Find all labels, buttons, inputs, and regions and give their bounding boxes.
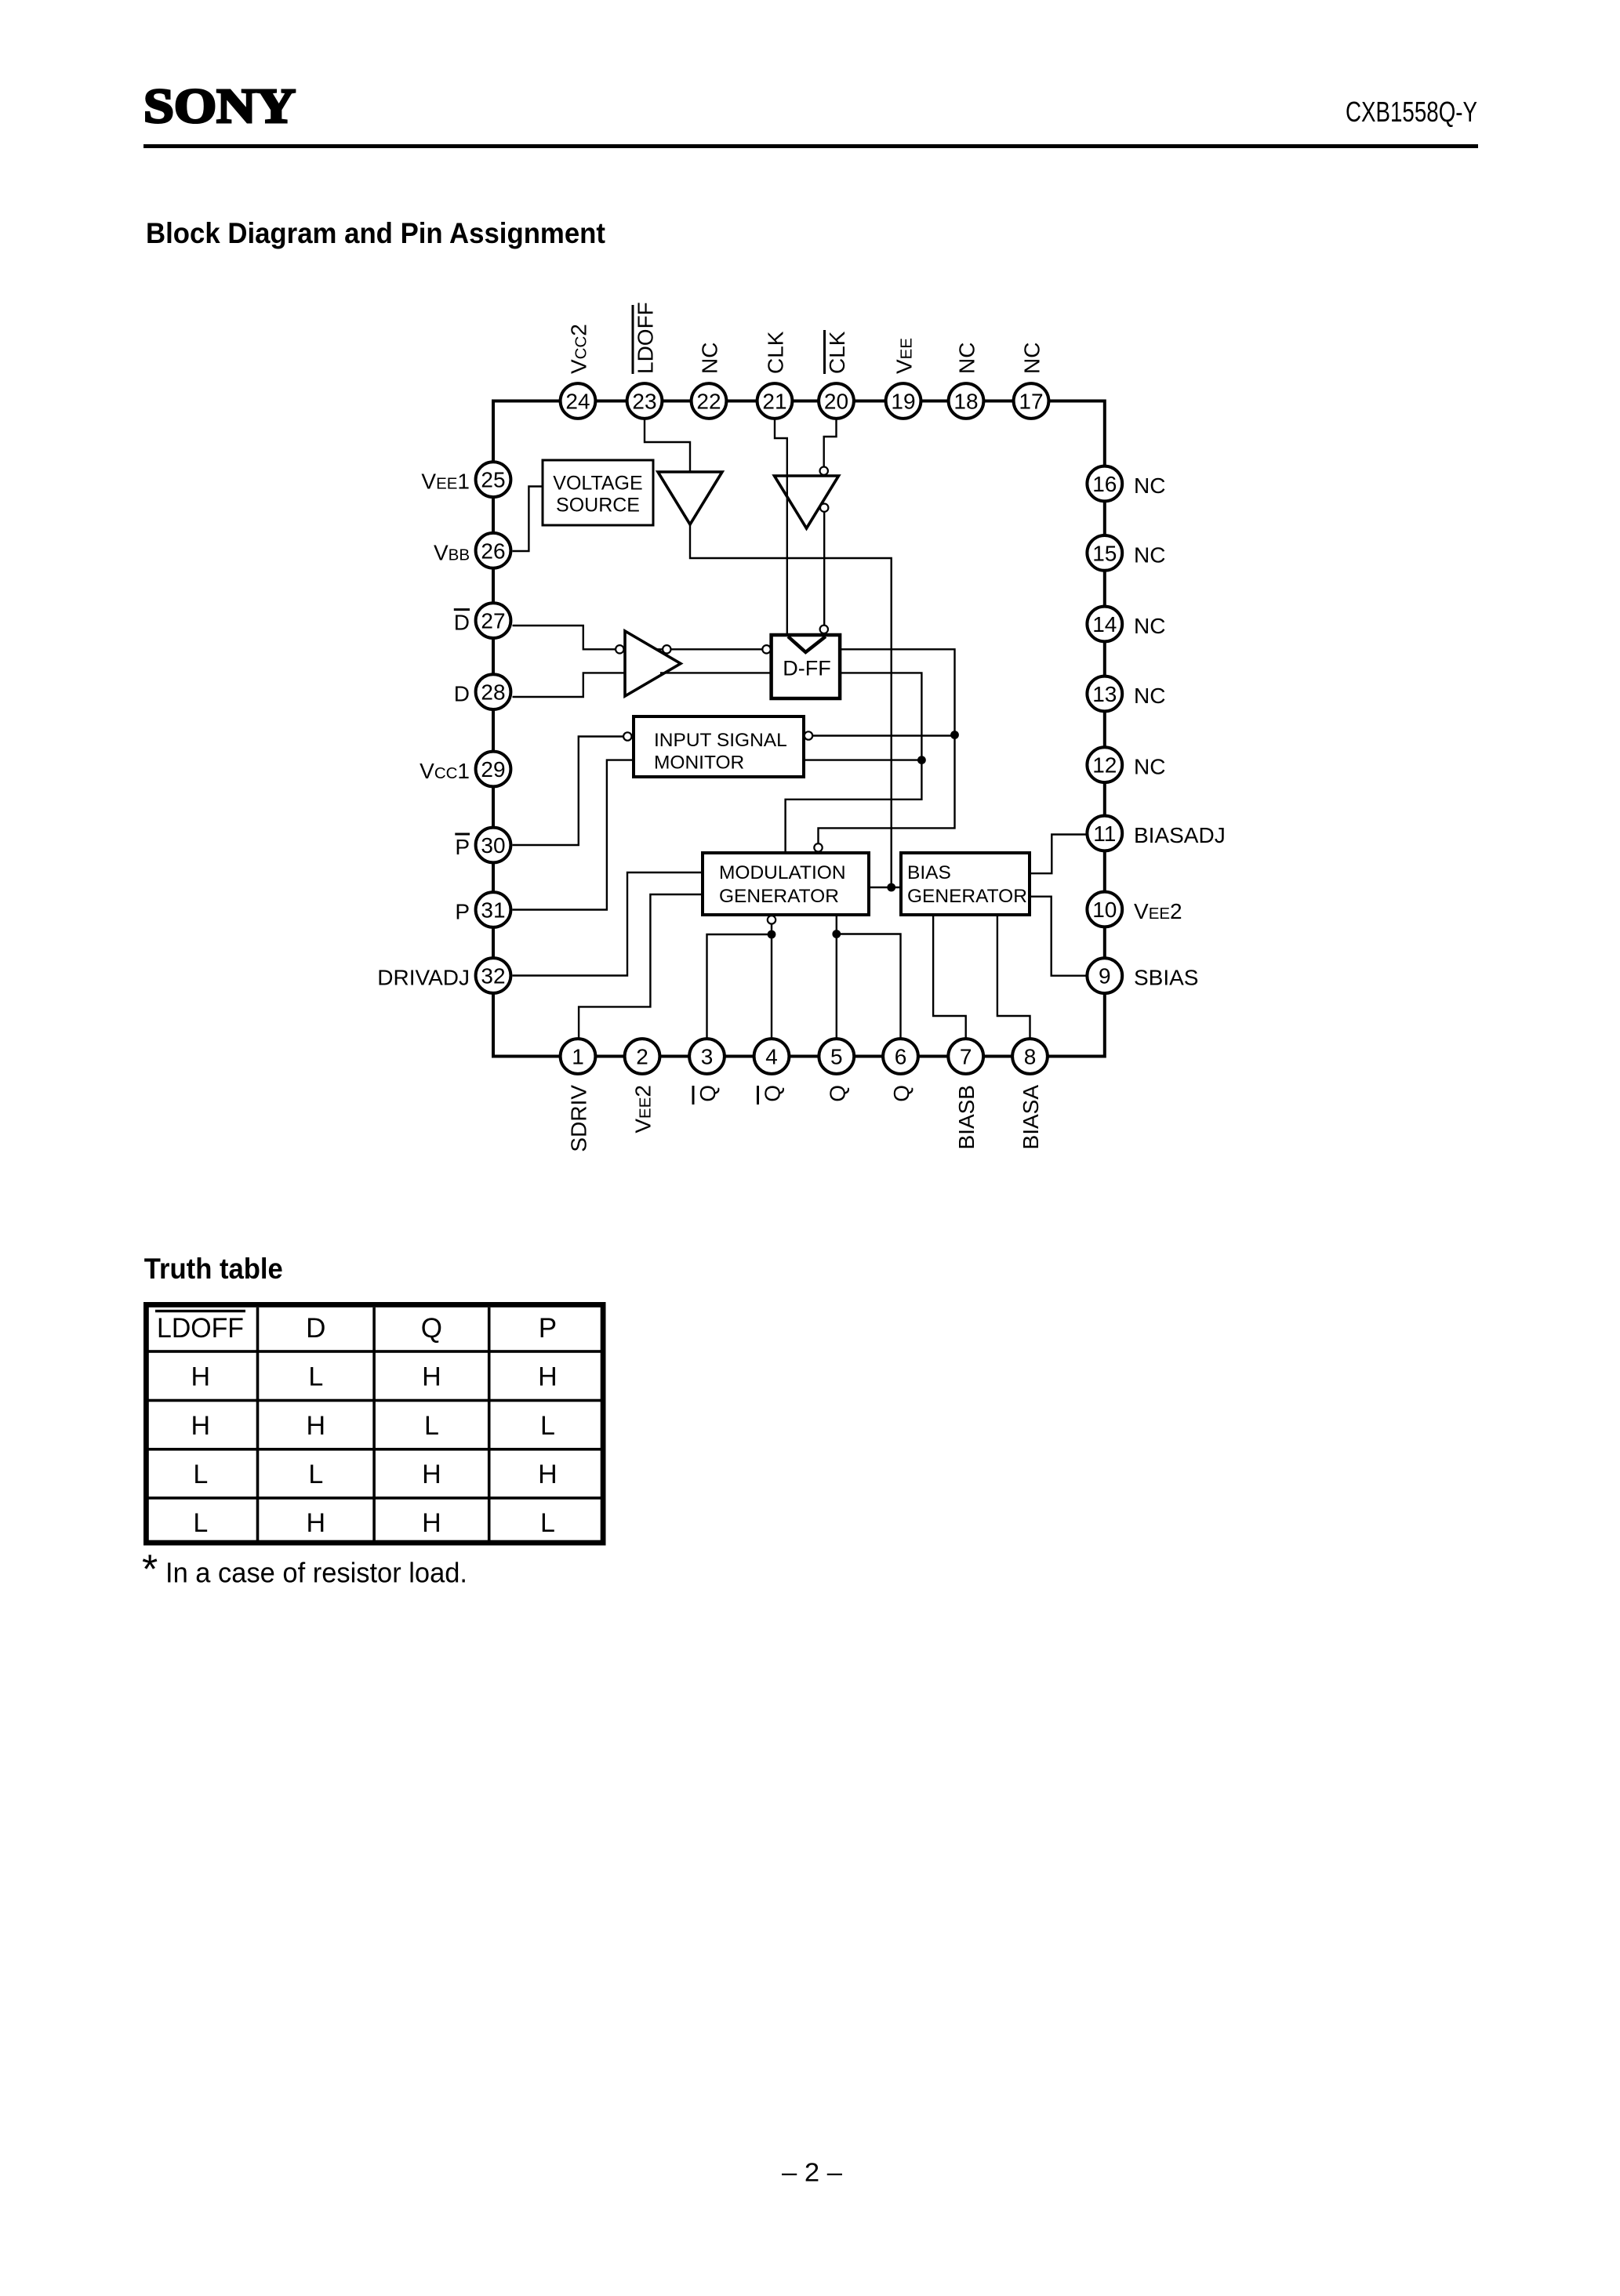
svg-text:21: 21 (762, 390, 786, 414)
svg-text:BIASA: BIASA (1019, 1085, 1043, 1150)
svg-text:24: 24 (565, 390, 590, 414)
svg-text:23: 23 (632, 390, 656, 414)
svg-text:SONY: SONY (143, 80, 296, 133)
svg-text:P: P (455, 835, 470, 859)
svg-text:32: 32 (481, 964, 505, 988)
svg-text:18: 18 (953, 390, 978, 414)
svg-text:SBIAS: SBIAS (1134, 966, 1198, 990)
svg-text:H: H (422, 1508, 441, 1538)
svg-text:22: 22 (696, 390, 721, 414)
svg-text:L: L (308, 1460, 323, 1489)
svg-text:1: 1 (572, 1045, 584, 1069)
svg-text:NC: NC (698, 343, 722, 374)
svg-text:NC: NC (1134, 542, 1165, 567)
svg-text:H: H (191, 1362, 211, 1391)
svg-text:NC: NC (1134, 755, 1165, 779)
svg-text:Q: Q (421, 1313, 442, 1344)
svg-text:D: D (454, 682, 470, 706)
svg-text:L: L (424, 1411, 439, 1441)
svg-text:In a case of resistor load.: In a case of resistor load. (165, 1557, 467, 1589)
svg-text:NC: NC (1020, 343, 1044, 374)
svg-text:17: 17 (1019, 390, 1043, 414)
svg-text:Q: Q (761, 1085, 785, 1102)
svg-text:NC: NC (1134, 684, 1165, 708)
svg-text:26: 26 (481, 539, 505, 563)
svg-text:Block Diagram and Pin Assignme: Block Diagram and Pin Assignment (146, 217, 605, 249)
svg-text:P: P (539, 1313, 557, 1344)
svg-text:INPUT SIGNAL: INPUT SIGNAL (654, 730, 787, 751)
svg-text:BIAS: BIAS (907, 862, 951, 883)
svg-text:30: 30 (481, 833, 505, 858)
svg-text:16: 16 (1092, 472, 1117, 496)
svg-text:LDOFF: LDOFF (157, 1313, 244, 1344)
svg-text:D: D (306, 1313, 325, 1344)
svg-text:*: * (142, 1547, 158, 1593)
svg-text:BIASADJ: BIASADJ (1134, 823, 1226, 847)
svg-text:L: L (193, 1508, 208, 1538)
svg-text:H: H (307, 1508, 326, 1538)
svg-text:9: 9 (1099, 964, 1111, 988)
svg-text:H: H (538, 1362, 558, 1391)
svg-text:GENERATOR: GENERATOR (719, 886, 839, 907)
svg-text:13: 13 (1092, 682, 1117, 706)
svg-text:L: L (540, 1411, 555, 1441)
svg-text:CLK: CLK (825, 331, 849, 374)
svg-text:Q: Q (889, 1085, 914, 1102)
svg-text:VOLTAGE: VOLTAGE (553, 473, 642, 495)
svg-text:CLK: CLK (764, 331, 788, 374)
svg-text:7: 7 (960, 1045, 972, 1069)
svg-text:28: 28 (481, 680, 505, 705)
svg-text:D: D (454, 611, 470, 635)
svg-text:DRIVADJ: DRIVADJ (377, 966, 470, 990)
svg-text:D-FF: D-FF (783, 656, 830, 680)
svg-text:H: H (422, 1460, 441, 1489)
svg-text:BIASB: BIASB (954, 1085, 979, 1149)
svg-text:H: H (191, 1411, 211, 1441)
svg-text:25: 25 (481, 468, 505, 492)
svg-text:6: 6 (895, 1045, 907, 1069)
svg-text:Q: Q (825, 1085, 849, 1102)
svg-text:29: 29 (481, 757, 505, 782)
svg-text:H: H (538, 1460, 558, 1489)
svg-text:L: L (308, 1362, 323, 1391)
svg-text:SDRIV: SDRIV (567, 1085, 591, 1152)
svg-text:31: 31 (481, 898, 505, 923)
svg-text:MODULATION: MODULATION (719, 862, 846, 883)
svg-text:SOURCE: SOURCE (556, 495, 640, 517)
svg-text:P: P (455, 900, 470, 924)
svg-text:H: H (307, 1411, 326, 1441)
svg-text:15: 15 (1092, 541, 1117, 565)
svg-text:8: 8 (1024, 1045, 1037, 1069)
svg-text:LDOFF: LDOFF (634, 302, 658, 374)
svg-text:MONITOR: MONITOR (654, 752, 744, 773)
svg-text:12: 12 (1092, 753, 1117, 778)
svg-text:3: 3 (701, 1045, 714, 1069)
svg-text:5: 5 (830, 1045, 843, 1069)
svg-text:GENERATOR: GENERATOR (907, 886, 1027, 907)
svg-text:– 2 –: – 2 – (782, 2158, 843, 2187)
svg-text:L: L (193, 1460, 208, 1489)
svg-text:H: H (422, 1362, 441, 1391)
svg-text:L: L (540, 1508, 555, 1538)
svg-text:Q: Q (696, 1085, 720, 1102)
svg-text:Truth table: Truth table (144, 1253, 283, 1285)
svg-text:NC: NC (955, 343, 979, 374)
svg-text:4: 4 (765, 1045, 778, 1069)
svg-text:27: 27 (481, 609, 505, 633)
svg-text:NC: NC (1134, 473, 1165, 498)
svg-text:20: 20 (824, 390, 848, 414)
svg-text:14: 14 (1092, 612, 1117, 637)
svg-text:11: 11 (1093, 822, 1116, 846)
svg-text:10: 10 (1092, 898, 1117, 922)
svg-text:CXB1558Q-Y: CXB1558Q-Y (1346, 96, 1477, 128)
svg-text:NC: NC (1134, 614, 1165, 638)
svg-text:2: 2 (636, 1045, 648, 1069)
svg-text:19: 19 (891, 390, 915, 414)
